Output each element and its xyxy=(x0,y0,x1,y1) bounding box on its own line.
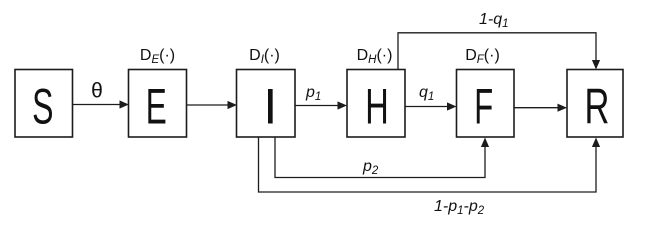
box H xyxy=(347,70,405,138)
svg-text:E: E xyxy=(146,78,167,134)
wire arrow H to F xyxy=(405,102,457,110)
svg-text:DE(·): DE(·) xyxy=(140,47,175,66)
svg-text:DI(·): DI(·) xyxy=(249,47,280,66)
svg-text:I: I xyxy=(263,79,277,135)
svg-text:R: R xyxy=(585,79,610,135)
svg-text:DH(·): DH(·) xyxy=(357,47,393,66)
svg-text:θ: θ xyxy=(91,80,103,103)
svg-text:F: F xyxy=(474,78,493,134)
wire arrow E to I xyxy=(187,101,238,109)
svg-text:1-q1: 1-q1 xyxy=(479,11,509,30)
wire arrow S to E xyxy=(73,100,130,108)
svg-text:p1: p1 xyxy=(305,84,321,103)
wire bottom path I to R (1-p1-p2 branch) xyxy=(259,137,601,192)
svg-text:H: H xyxy=(365,78,388,134)
box I xyxy=(237,70,296,138)
wire arrow F to R xyxy=(514,104,567,112)
svg-text:p2: p2 xyxy=(362,158,379,177)
svg-text:DF(·): DF(·) xyxy=(465,47,500,66)
box S xyxy=(15,70,73,138)
svg-text:1-p1-p2: 1-p1-p2 xyxy=(434,198,485,217)
wire top path H to R (1-q1 branch) xyxy=(398,33,600,70)
svg-text:S: S xyxy=(32,78,53,134)
box F xyxy=(457,70,515,138)
wire arrow I to H xyxy=(295,101,347,109)
box E xyxy=(129,70,187,138)
box R xyxy=(567,70,623,138)
svg-text:q1: q1 xyxy=(419,84,434,103)
wire p2 path I to F xyxy=(275,137,489,178)
